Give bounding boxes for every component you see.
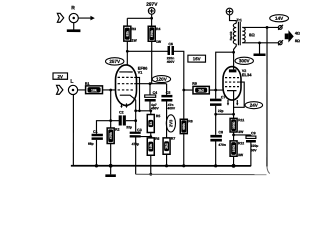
svg-text:470k: 470k: [109, 132, 113, 139]
resistor R6 10k: [147, 137, 159, 175]
svg-text:1W: 1W: [132, 39, 138, 43]
node R8/R9 junction: [182, 89, 185, 92]
svg-text:2V: 2V: [58, 74, 63, 79]
feedback wire down from output: [266, 27, 268, 166]
node EL34 cathode junction: [232, 113, 235, 116]
EL34 cathode: [227, 91, 237, 115]
svg-text:68p: 68p: [88, 142, 94, 146]
feedback line bottom: [136, 173, 267, 175]
svg-text:82k: 82k: [126, 31, 130, 37]
svg-text:C3: C3: [137, 128, 142, 132]
speaker arrow: [285, 30, 294, 42]
node R12 on ground rail: [232, 164, 236, 168]
main ground symbol: [105, 166, 116, 177]
wire C1 bottom to rail: [95, 140, 97, 166]
svg-text:Ra=3k: Ra=3k: [229, 31, 233, 40]
node secondary ground junction: [258, 41, 261, 44]
resistor R11 330 3W: [230, 114, 244, 134]
input jack R: [69, 5, 78, 22]
svg-text:297V: 297V: [146, 2, 158, 8]
svg-text:400V: 400V: [167, 106, 176, 110]
svg-text:R3: R3: [132, 27, 136, 31]
wire node A to C2: [111, 120, 119, 122]
input jack L: [68, 79, 77, 95]
wire R2 bottom to rail: [110, 143, 112, 165]
wire B+ to transformer primary: [230, 15, 237, 24]
junction 297V: [150, 17, 153, 20]
label V2 EL34: [242, 69, 252, 77]
svg-text:220μ: 220μ: [251, 144, 259, 148]
svg-text:257V: 257V: [109, 59, 121, 64]
node 297V supply: [146, 2, 158, 14]
wire jack L to R1: [78, 89, 86, 91]
svg-text:R2: R2: [115, 128, 119, 132]
svg-text:120V: 120V: [156, 77, 168, 82]
svg-text:400V: 400V: [167, 60, 176, 64]
svg-text:EL34: EL34: [242, 72, 252, 77]
wire C9 bottom to rail end: [250, 143, 252, 167]
node screen g2: [149, 82, 152, 85]
svg-text:450V: 450V: [151, 106, 160, 110]
node R11/R12/C9 junction: [232, 134, 235, 137]
wire C4 bottom to cathode node: [149, 101, 151, 110]
output terminal lower: [278, 40, 283, 45]
input marker chevron R: [57, 13, 63, 22]
wire R1 to EF86 grid g1: [102, 89, 115, 91]
resistor R1 10k: [85, 82, 103, 94]
EF86 g3 to cathode wire: [134, 77, 139, 110]
EF86 cathode: [120, 95, 136, 100]
svg-text:C8: C8: [218, 130, 223, 134]
svg-text:C2: C2: [119, 110, 124, 114]
label EF86 V1: [138, 66, 148, 75]
node A below grid: [109, 119, 112, 122]
svg-text:4Ω: 4Ω: [295, 31, 300, 35]
svg-text:R8: R8: [188, 119, 192, 123]
wire anode bus to C6: [127, 50, 167, 52]
svg-text:22p: 22p: [218, 109, 224, 113]
wire EF86 g2 to screen node: [134, 83, 166, 85]
svg-text:50V: 50V: [251, 148, 258, 152]
svg-text:1W: 1W: [156, 40, 162, 44]
label oval 300V: [235, 57, 253, 64]
node cathode top R5: [149, 109, 152, 112]
resistor R3 82k 1W: [124, 26, 138, 42]
label oval 14V: [270, 15, 289, 22]
wire secondary top to output: [242, 26, 278, 28]
EL34 g2 strap to cathode: [234, 82, 245, 107]
wire junction to C9: [234, 134, 251, 136]
svg-text:470n: 470n: [218, 143, 226, 147]
svg-text:2V3: 2V3: [168, 119, 173, 127]
resistor R5 1k: [147, 111, 160, 137]
transformer Tr1 secondary winding: [242, 27, 245, 42]
svg-text:3W: 3W: [238, 130, 244, 134]
EF86 heater pins: [120, 103, 127, 108]
EL34 grid g2: [225, 81, 239, 83]
wire junction to EL34 cathode: [216, 113, 234, 115]
wire R9 to EL34 grid: [209, 89, 223, 91]
svg-text:R12: R12: [238, 141, 244, 145]
input marker chevron L: [56, 85, 62, 94]
svg-text:R: R: [71, 5, 75, 11]
svg-text:3W: 3W: [238, 153, 244, 157]
svg-text:C4: C4: [153, 91, 158, 95]
node cathode EF86: [134, 109, 137, 112]
svg-text:1k: 1k: [149, 121, 153, 125]
resistor R2 470k: [107, 128, 119, 144]
EF86 grid g2: [118, 83, 134, 85]
wire screen node to C5: [166, 84, 168, 95]
capacitor C7 22p: [210, 95, 226, 113]
wire C5 bottom to R7: [166, 102, 168, 138]
node R6 on feedback line: [149, 173, 152, 176]
svg-text:R4: R4: [156, 27, 160, 31]
EL34 anode plate: [229, 52, 237, 72]
svg-text:Tr1: Tr1: [237, 18, 242, 22]
tube EL34 V2 envelope: [223, 67, 241, 101]
wire R4 bottom to screen node: [151, 41, 153, 83]
resistor R9 2k2: [184, 82, 210, 94]
svg-text:R9: R9: [192, 82, 197, 86]
node grid g1: [109, 89, 112, 92]
svg-text:570k: 570k: [150, 30, 154, 37]
label oval 120V: [152, 76, 170, 83]
wire C7 bottom to cathode junction: [215, 106, 217, 135]
EL34 heater pins: [227, 100, 239, 106]
wire grid node down: [110, 90, 112, 128]
node R7 on rail: [165, 164, 168, 167]
wire 297V to R3/R4 tops: [127, 14, 151, 26]
svg-text:330Ω: 330Ω: [232, 121, 236, 129]
node C8 on rail: [214, 164, 217, 167]
svg-text:C1: C1: [93, 130, 98, 134]
capacitor C4 4u7 450V electrolytic: [145, 91, 160, 111]
svg-text:100Ω: 100Ω: [232, 144, 236, 152]
node C1 on rail: [95, 164, 98, 167]
wire cathode column to C3: [135, 100, 137, 132]
svg-text:V1: V1: [138, 71, 142, 75]
svg-text:R1: R1: [85, 82, 90, 86]
svg-text:C6: C6: [168, 42, 173, 46]
label oval 2V3: [166, 115, 175, 132]
wire R3 bottom to EF86 anode: [126, 41, 128, 72]
svg-text:C9: C9: [251, 131, 256, 135]
EL34 grid g3: [225, 77, 239, 79]
node C7 grid junction: [214, 89, 217, 92]
label box 2V: [53, 73, 68, 79]
svg-text:10k: 10k: [149, 144, 153, 150]
wire cathode bus to R5: [136, 110, 151, 112]
wire arrow from jack R: [78, 16, 95, 21]
capacitor C6 220n 400V: [167, 42, 176, 64]
EF86 anode plate: [119, 71, 132, 73]
node R5/R6 junction: [149, 135, 152, 138]
resistor R8 680k: [180, 119, 192, 166]
EF86 grid g3: [118, 76, 134, 78]
node R8 on rail: [182, 164, 185, 167]
capacitor C1 68p: [88, 130, 103, 146]
wire C8 bottom to rail: [215, 142, 217, 166]
transformer Tr1 primary winding: [233, 23, 236, 44]
wire primary bottom to anode node: [234, 44, 237, 52]
svg-text:10k: 10k: [91, 88, 97, 92]
node C7/C8 junction: [214, 113, 217, 116]
label oval 24V: [245, 102, 263, 109]
EL34 grid g1: [225, 86, 239, 88]
node B+ terminal for transformer: [226, 8, 233, 15]
capacitor C3 470p: [130, 128, 142, 146]
capacitor C8 470n: [210, 130, 226, 147]
transformer Tr1 core: [238, 22, 240, 45]
node anode EF86: [126, 50, 129, 53]
wire C3 bottom to feedback line: [135, 137, 137, 174]
resistor R4 570k 1W: [148, 26, 162, 44]
wire C6 to R8/R9 junction: [174, 51, 184, 119]
svg-text:2k2: 2k2: [165, 143, 169, 149]
wire R5/R6 junction to C3 column: [136, 136, 151, 138]
svg-text:22p: 22p: [126, 125, 132, 129]
capacitor C2 22p: [119, 110, 132, 129]
node feedback takeoff: [266, 26, 269, 29]
capacitor C5 47n 400V: [161, 91, 176, 111]
wire anode EL34 to C7 column: [216, 52, 234, 98]
node R2 on rail: [109, 164, 113, 168]
output terminal upper: [278, 25, 283, 30]
svg-text:R6: R6: [155, 137, 159, 141]
resistor R12 100 3W: [230, 141, 244, 166]
node EL34 anode: [232, 51, 235, 54]
wire secondary bottom to output: [242, 42, 278, 44]
svg-text:24V: 24V: [250, 103, 259, 108]
ground rail: [71, 165, 251, 167]
svg-text:R5: R5: [156, 114, 160, 118]
svg-text:8Ω: 8Ω: [295, 39, 300, 43]
wire g2 node down to C4: [149, 84, 151, 95]
svg-text:14V: 14V: [275, 16, 284, 21]
wire node A to C1: [96, 121, 110, 134]
wire R11 to R12: [233, 132, 235, 141]
svg-text:L: L: [70, 79, 73, 85]
svg-text:300V: 300V: [239, 58, 251, 63]
resistor R7 2k2: [163, 137, 175, 166]
label oval 257V: [106, 58, 124, 65]
svg-text:8Ω: 8Ω: [249, 32, 255, 37]
ground below jack R: [67, 23, 81, 32]
svg-text:2k2: 2k2: [198, 89, 204, 93]
svg-text:C5: C5: [166, 91, 171, 95]
wire C2 to cathode column: [126, 120, 136, 122]
svg-text:R11: R11: [238, 118, 244, 122]
capacitor C9 220u 50V electrolytic: [246, 131, 258, 152]
tube EF86 V1 envelope: [115, 65, 136, 106]
svg-text:R7: R7: [171, 137, 175, 141]
EF86 grid g1: [118, 89, 134, 91]
ground below secondary: [254, 43, 266, 56]
wire jack L to ground rail: [72, 95, 74, 167]
svg-text:16V: 16V: [193, 56, 201, 61]
label box 16V: [188, 55, 206, 62]
svg-text:680k: 680k: [182, 123, 186, 130]
